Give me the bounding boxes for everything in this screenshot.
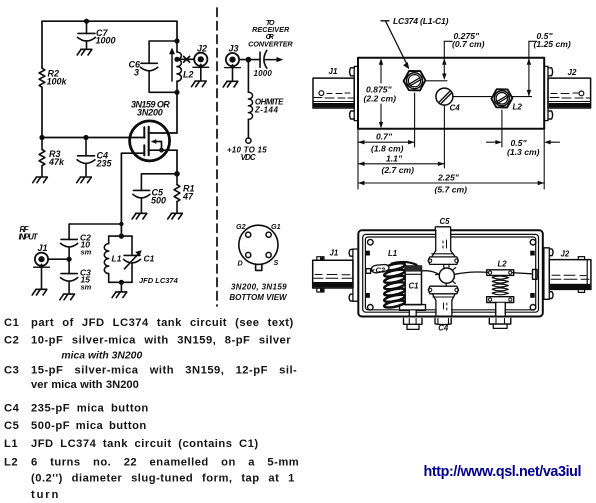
svg-text:JFD LC374 tank circuit (contai: JFD LC374 tank circuit (contains C1) [31, 438, 259, 450]
connector J2 top view [544, 66, 590, 120]
svg-text:(2.7 cm): (2.7 cm) [382, 165, 415, 175]
wire J1 to junction [48, 258, 69, 260]
hookup wire L2 to wall terminal [512, 273, 532, 274]
resistor R1 [174, 174, 180, 213]
ground C5 [132, 213, 147, 219]
node tank top dot [174, 38, 179, 43]
ground J1 [32, 289, 47, 295]
wire J3 to junction [239, 59, 260, 61]
svg-text:(1.3 cm): (1.3 cm) [507, 147, 540, 157]
node junction dot C4 top [83, 135, 88, 140]
svg-text:6 turns no. 22 enamelled on a: 6 turns no. 22 enamelled on a 5-mm [31, 457, 299, 469]
svg-text:10-pF silver-mica with 3N159,: 10-pF silver-mica with 3N159, 8-pF silve… [31, 335, 291, 347]
hex nut L2 top view [491, 89, 512, 107]
node C2 rail dot [119, 222, 123, 226]
svg-text:G2: G2 [236, 222, 246, 231]
ground J2 [192, 81, 207, 87]
J2 wall solder tabs [530, 251, 535, 256]
svg-text:500-pF mica button: 500-pF mica button [31, 420, 147, 432]
svg-text:100k: 100k [47, 77, 68, 87]
hex nut LC374 tuning screw [404, 71, 426, 91]
svg-text:C2: C2 [4, 335, 19, 347]
svg-text:C1: C1 [4, 317, 19, 329]
svg-text:C3: C3 [4, 365, 19, 377]
svg-text:(1.8 cm): (1.8 cm) [371, 144, 404, 154]
svg-text:J2: J2 [561, 250, 570, 259]
svg-text:sm: sm [81, 283, 92, 292]
node tank bottom dot [119, 280, 124, 285]
center line L2 right stub [512, 96, 532, 98]
svg-text:(5.7 cm): (5.7 cm) [435, 184, 468, 194]
wire left rail upper [41, 21, 43, 68]
svg-text:C5: C5 [4, 420, 19, 432]
corner screw top-right [530, 239, 536, 245]
svg-text:L1: L1 [112, 254, 122, 264]
svg-text:(0.2'') diameter slug-tuned fo: (0.2'') diameter slug-tuned form, tap at… [31, 473, 295, 485]
wall pin for C2 [366, 269, 371, 274]
wire top rail drop to tank [176, 21, 178, 41]
node source junction dot [174, 171, 180, 177]
wire J2 to ground [200, 66, 202, 81]
svg-text:J1: J1 [330, 249, 339, 258]
wire junction down to choke [247, 60, 249, 93]
svg-text:15-pF silver-mica with 3N159,: 15-pF silver-mica with 3N159, 12-pF sil- [31, 365, 297, 377]
chassis inner lip inner line [365, 237, 535, 310]
svg-text:L2: L2 [183, 70, 194, 80]
svg-text:J1: J1 [37, 243, 47, 253]
L2 mounting nut below box [489, 318, 511, 328]
svg-text:L2: L2 [498, 259, 508, 268]
ground J3 [223, 81, 238, 87]
chassis outer box interior view [358, 230, 543, 316]
transistor Q1 3N159/3N200 [130, 121, 177, 161]
svg-text:1000: 1000 [254, 69, 273, 78]
ground C7 [77, 49, 92, 55]
dimension 1.1" (2.7 cm) [358, 163, 444, 165]
wall terminal right [533, 269, 538, 279]
hookup wire transistor to L2 [454, 272, 488, 274]
node input junction dot [67, 257, 72, 262]
transistor interior view [436, 268, 459, 287]
svg-text:CONVERTER: CONVERTER [248, 39, 293, 48]
wire tap to J2 [177, 58, 194, 60]
J1 wall solder tabs [365, 251, 370, 256]
wire J1 to ground [41, 266, 43, 289]
svg-text:part of JFD LC374 tank circuit: part of JFD LC374 tank circuit (see text… [31, 317, 294, 329]
capacitor 1000 output coupling [260, 50, 267, 68]
svg-text:3: 3 [134, 68, 139, 78]
ground L1 tank [112, 292, 127, 298]
capacitor C5 [133, 174, 177, 213]
ground C3 [60, 294, 75, 300]
svg-text:(0.7 cm): (0.7 cm) [452, 39, 485, 49]
dimension 0.5" (1.25 cm) [529, 41, 537, 95]
node junction dot R2/R3 [39, 135, 44, 140]
inductor L2 [177, 41, 181, 92]
capacitor C4 [77, 138, 95, 177]
chassis inner lip outer line [363, 234, 539, 312]
node L2 tap dot [174, 57, 179, 62]
node junction dot C7 top [84, 19, 89, 24]
connector J1 top view [313, 66, 358, 120]
svg-text:(1.25 cm): (1.25 cm) [534, 39, 571, 49]
connector J2 [193, 53, 209, 68]
corner screw bottom-right [530, 305, 536, 311]
leader arrow LC374 [386, 21, 407, 64]
inductor L2 interior [487, 270, 514, 316]
connector J3 [225, 53, 241, 68]
screw C4 top view [436, 88, 453, 105]
wire choke to terminal [247, 119, 249, 138]
svg-text:L1: L1 [388, 249, 397, 258]
svg-text:3N200, 3N159: 3N200, 3N159 [231, 282, 287, 291]
svg-text:C1: C1 [409, 282, 419, 291]
wire gate-1 lead [121, 153, 144, 236]
dimension 0.7" (1.8 cm) [358, 141, 415, 143]
capacitor C3 [61, 259, 78, 293]
svg-text:(2.2 cm): (2.2 cm) [364, 94, 397, 104]
L1 top lead wire [392, 262, 417, 265]
center line LC374 right stub [425, 80, 447, 82]
C1 arrow head [135, 250, 142, 256]
svg-text:235: 235 [96, 159, 113, 169]
connector J2 interior view [544, 248, 591, 299]
dimension 0.275" (0.7 cm) [444, 41, 452, 77]
C4 mounting nut below box [435, 318, 451, 324]
wire tank top edge [109, 235, 132, 237]
svg-text:J2: J2 [568, 68, 577, 77]
capacitor C1 variable [124, 236, 141, 282]
node J3 junction dot [246, 57, 252, 63]
wire tank to ground [120, 282, 122, 291]
capacitor C5 feedthrough body [428, 227, 458, 268]
svg-text:S: S [274, 258, 279, 267]
corner screw top-left [368, 239, 374, 245]
svg-text:INPUT: INPUT [19, 232, 39, 241]
capacitor C7 [78, 21, 96, 49]
wire drain lead [176, 92, 178, 133]
dimension 0.875" (2.2 cm) vertical [380, 60, 382, 127]
capacitor C1 body interior [400, 266, 426, 316]
svg-text:235-pF mica button: 235-pF mica button [31, 403, 149, 415]
capacitor C2 blob interior [371, 265, 389, 273]
inductor L1 [104, 236, 108, 282]
svg-text:J1: J1 [329, 67, 338, 76]
svg-text:D: D [238, 259, 243, 268]
transistor package bottom view [239, 225, 278, 270]
wire left rail lower [41, 87, 43, 137]
connector J1 interior view [313, 249, 359, 301]
center line C4 to L2 [453, 96, 492, 98]
svg-text:3N200: 3N200 [137, 108, 163, 118]
svg-text:BOTTOM VIEW: BOTTOM VIEW [229, 293, 288, 302]
wire gate-2 rail [42, 137, 145, 139]
dashed separator line [216, 8, 218, 306]
node tank bottom dot [174, 90, 179, 95]
svg-text:1000: 1000 [96, 36, 116, 46]
corner screw bottom-left [368, 305, 374, 311]
svg-text:G1: G1 [271, 222, 281, 231]
svg-text:C2: C2 [376, 266, 386, 275]
capacitor C6 [140, 41, 177, 92]
svg-text:http://www.qsl.net/va3iul: http://www.qsl.net/va3iul [424, 464, 582, 480]
svg-text:47k: 47k [48, 157, 65, 167]
svg-text:L2: L2 [513, 103, 523, 112]
capacitor C4 button interior [428, 286, 458, 315]
ground C4 [77, 177, 92, 183]
svg-text:JFD LC374: JFD LC374 [139, 276, 179, 285]
dimension 2.25" (5.7 cm) [358, 182, 544, 184]
L2 slug arrow [171, 52, 173, 81]
inductor L1 coil interior [384, 262, 406, 309]
choke OHMITE Z-144 [248, 92, 252, 119]
svg-text:turn: turn [31, 489, 60, 501]
svg-text:C4: C4 [438, 324, 449, 333]
svg-text:2.25": 2.25" [437, 173, 460, 183]
svg-text:C1: C1 [144, 254, 155, 264]
svg-text:LC374 (L1-C1): LC374 (L1-C1) [393, 16, 449, 26]
connector J1 [34, 253, 50, 268]
wire top rail [42, 20, 177, 22]
X mark on tap wire [184, 56, 190, 62]
ground R1 [168, 213, 183, 219]
node L1 tank top dot [119, 234, 124, 239]
dimension 0.5" (1.3 cm) right [487, 141, 501, 143]
wire source lead down [176, 150, 178, 174]
svg-text:C5: C5 [440, 217, 451, 226]
resistor R3 [39, 138, 45, 177]
svg-text:L1: L1 [4, 438, 18, 450]
svg-text:0.7": 0.7" [376, 132, 393, 142]
svg-text:Z-144: Z-144 [254, 106, 279, 115]
svg-text:VDC: VDC [241, 153, 256, 162]
transistor substrate arrowhead [151, 139, 157, 144]
svg-text:500: 500 [151, 196, 166, 206]
wire to receiver with arrowhead [265, 59, 279, 61]
ground R3 [33, 177, 48, 183]
svg-text:mica with 3N200: mica with 3N200 [61, 351, 142, 362]
svg-text:47: 47 [182, 192, 194, 202]
wire tank bottom edge [109, 281, 132, 283]
terminal +V [246, 138, 251, 143]
node substrate-source dot [159, 148, 164, 153]
hookup wire C1 to transistor [422, 271, 439, 275]
extension lines below box [358, 93, 544, 189]
L1/C1 mounting nut below box [404, 318, 423, 329]
wire J3 ground lead [232, 66, 234, 81]
svg-text:1.1": 1.1" [386, 153, 403, 163]
svg-text:J3: J3 [228, 43, 238, 53]
chassis box top view [358, 58, 544, 129]
svg-text:C4: C4 [450, 104, 461, 113]
svg-text:C4: C4 [4, 403, 20, 415]
resistor R2 [39, 68, 45, 87]
capacitor C2 [61, 224, 78, 259]
wire C2 top rail [69, 223, 121, 225]
svg-text:L2: L2 [4, 457, 18, 469]
svg-text:sm: sm [81, 248, 92, 257]
svg-text:J2: J2 [197, 44, 207, 54]
svg-text:ver mica with 3N200: ver mica with 3N200 [31, 379, 139, 391]
